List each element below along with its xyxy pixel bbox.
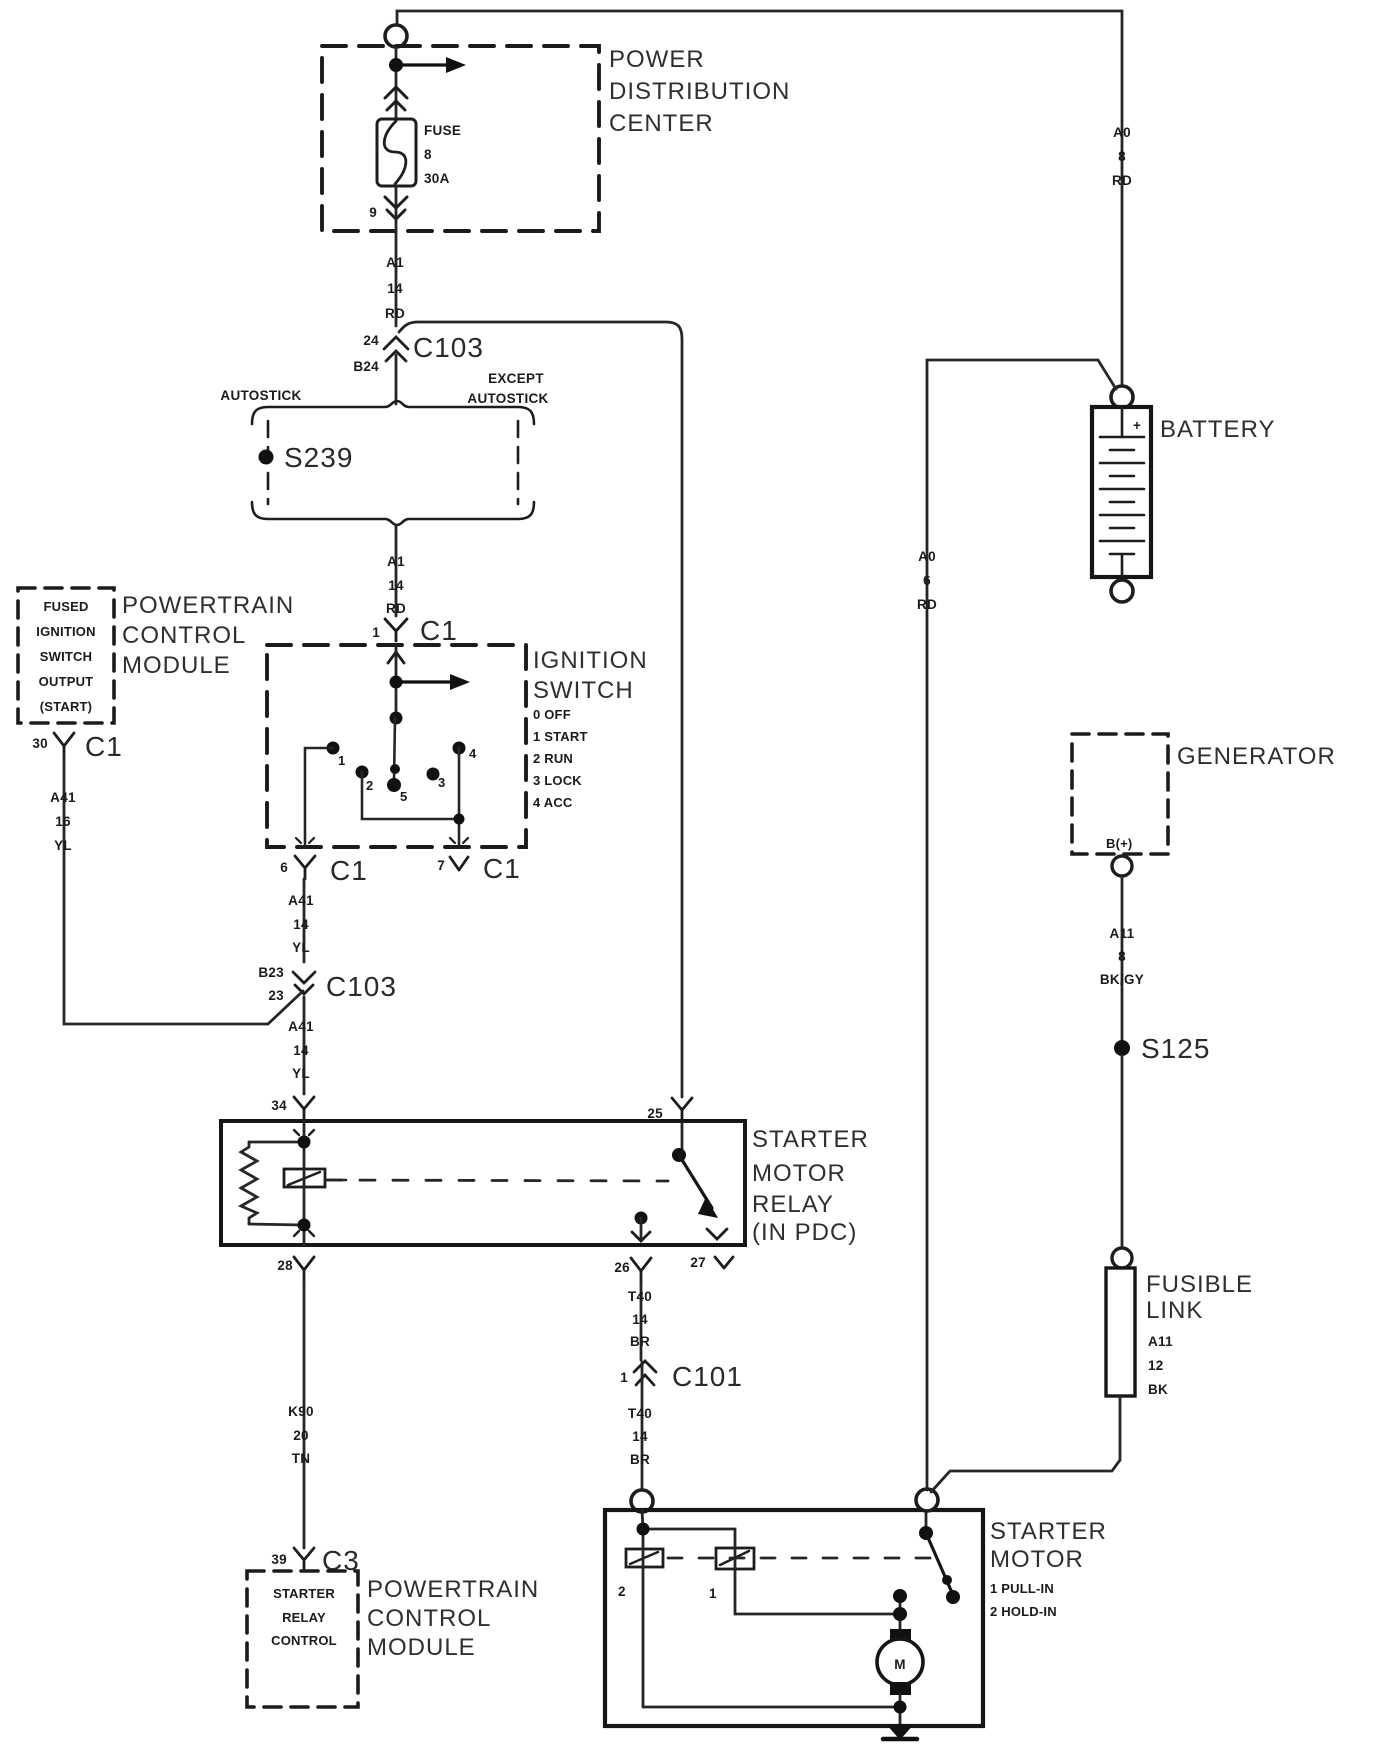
wire fusible link to starter terminal xyxy=(931,1396,1120,1492)
wire S125 to fusible link xyxy=(1121,1056,1124,1249)
svg-text:14: 14 xyxy=(387,281,403,296)
svg-text:A1: A1 xyxy=(386,255,404,270)
label POWERTRAIN CONTROL MODULE (upper) xyxy=(122,592,294,679)
svg-text:A11: A11 xyxy=(1148,1334,1173,1349)
starter solenoid terminal eyelet xyxy=(631,1490,653,1512)
fuse 8 30A xyxy=(377,119,461,186)
wire A11 8 BK/GY (generator output) xyxy=(1121,876,1124,1040)
svg-text:39: 39 xyxy=(271,1552,287,1567)
svg-text:A0: A0 xyxy=(1113,125,1131,140)
relay pin 27 exit xyxy=(707,1229,727,1239)
svg-text:6: 6 xyxy=(280,860,288,875)
svg-text:S125: S125 xyxy=(1141,1033,1210,1064)
wire K90 20 TN (relay control to PCM) xyxy=(303,1281,306,1548)
svg-text:3 LOCK: 3 LOCK xyxy=(533,773,582,788)
svg-text:GENERATOR: GENERATOR xyxy=(1177,743,1336,770)
svg-text:MOTOR: MOTOR xyxy=(990,1546,1084,1573)
svg-text:C103: C103 xyxy=(326,971,397,1002)
wire A1 14 RD (S239 to ignition switch C1) xyxy=(395,525,398,616)
svg-text:K90: K90 xyxy=(288,1404,314,1419)
label POWER DISTRIBUTION CENTER xyxy=(609,46,790,137)
svg-text:MODULE: MODULE xyxy=(122,652,231,679)
fused ignition switch output box (dashed) xyxy=(18,588,114,723)
ground xyxy=(886,1724,914,1740)
svg-text:A41: A41 xyxy=(288,893,314,908)
svg-text:POWER: POWER xyxy=(609,46,705,73)
wire A41 14 YL (C103 to relay pin 34) xyxy=(303,997,306,1094)
svg-text:28: 28 xyxy=(277,1258,293,1273)
svg-text:1: 1 xyxy=(372,625,380,640)
svg-text:(IN PDC): (IN PDC) xyxy=(752,1219,857,1246)
svg-text:26: 26 xyxy=(614,1260,630,1275)
motor M xyxy=(890,1629,911,1642)
svg-text:YL: YL xyxy=(292,940,310,955)
ignition contact 2 xyxy=(356,766,369,779)
svg-text:24: 24 xyxy=(363,333,379,348)
wire T40 14 BR (relay to C101) xyxy=(640,1282,643,1360)
svg-text:A1: A1 xyxy=(387,554,405,569)
svg-text:4: 4 xyxy=(469,746,477,761)
power distribution center box (dashed) xyxy=(322,46,599,231)
relay entry ticks pin34 xyxy=(294,1130,314,1135)
ignition contact 3 xyxy=(427,768,440,781)
svg-text:RD: RD xyxy=(386,601,406,616)
svg-text:6: 6 xyxy=(923,573,931,588)
fusible link xyxy=(1112,1248,1132,1268)
svg-text:5: 5 xyxy=(400,789,407,804)
svg-text:CONTROL: CONTROL xyxy=(122,622,246,649)
relay coil element box xyxy=(284,1169,325,1187)
svg-text:B24: B24 xyxy=(353,359,379,374)
svg-text:1 START: 1 START xyxy=(533,729,588,744)
svg-text:BK/GY: BK/GY xyxy=(1100,972,1144,987)
mechanical link (dashed) xyxy=(327,1180,668,1181)
svg-text:2 RUN: 2 RUN xyxy=(533,751,573,766)
wire: except-autostick branch to starter relay pin 25 xyxy=(399,322,682,1097)
svg-text:16: 16 xyxy=(55,814,71,829)
svg-text:14: 14 xyxy=(293,1043,309,1058)
solenoid contact 1 (pull-in) xyxy=(716,1548,754,1569)
svg-text:30: 30 xyxy=(32,736,48,751)
label STARTER MOTOR RELAY (IN PDC) xyxy=(752,1126,869,1246)
wire A1 14 RD (PDC to C103) xyxy=(395,232,398,326)
wire A41 16 YL (PCM start output) xyxy=(64,758,303,1024)
svg-text:(START): (START) xyxy=(40,699,92,714)
svg-text:RELAY: RELAY xyxy=(282,1610,326,1625)
ignition contact 1 xyxy=(327,742,340,755)
svg-text:C1: C1 xyxy=(483,853,521,884)
svg-text:2: 2 xyxy=(366,778,373,793)
svg-text:STARTER: STARTER xyxy=(273,1586,335,1601)
wire contact1 to C1 pin6 xyxy=(305,748,333,845)
svg-text:14: 14 xyxy=(632,1429,648,1444)
starter internal wiring xyxy=(642,1510,900,1707)
svg-text:FUSE: FUSE xyxy=(424,123,461,138)
svg-text:IGNITION: IGNITION xyxy=(36,624,95,639)
node: ignition feed junction with arrow xyxy=(390,676,403,689)
wire A0 6 RD label xyxy=(917,549,937,612)
svg-text:MODULE: MODULE xyxy=(367,1634,476,1661)
connector chevrons (bus tap) xyxy=(385,87,407,110)
label IGNITION SWITCH with positions xyxy=(533,647,648,704)
svg-text:POWERTRAIN: POWERTRAIN xyxy=(122,592,294,619)
svg-text:A41: A41 xyxy=(288,1019,314,1034)
svg-text:AUTOSTICK: AUTOSTICK xyxy=(220,388,301,403)
wire into splice (autostick side) xyxy=(395,355,398,404)
svg-text:OUTPUT: OUTPUT xyxy=(39,674,94,689)
svg-text:30A: 30A xyxy=(424,171,450,186)
svg-text:2: 2 xyxy=(618,1584,626,1599)
wire inside PDC xyxy=(395,47,398,120)
wire A41 14 YL (C1 to C103) xyxy=(303,879,306,962)
junction dots to motor xyxy=(893,1589,907,1603)
connector: PDC eyelet terminal xyxy=(385,25,407,47)
svg-text:RD: RD xyxy=(385,306,405,321)
svg-text:YL: YL xyxy=(292,1066,310,1081)
svg-text:RD: RD xyxy=(917,597,937,612)
splice S239 dot and label xyxy=(259,450,274,465)
svg-text:T40: T40 xyxy=(628,1406,652,1421)
svg-text:B23: B23 xyxy=(258,965,284,980)
connector C103 pin 24/B24 xyxy=(384,337,408,361)
svg-text:BR: BR xyxy=(630,1452,650,1467)
switch wiper pivot xyxy=(390,764,400,774)
svg-text:DISTRIBUTION: DISTRIBUTION xyxy=(609,78,790,105)
svg-text:C103: C103 xyxy=(413,332,484,363)
splice S239 (bracketed box) xyxy=(252,401,534,525)
svg-text:8: 8 xyxy=(1118,149,1126,164)
starter battery terminal eyelet xyxy=(916,1489,938,1511)
svg-text:23: 23 xyxy=(268,988,284,1003)
wire contact2 to contact4 leg xyxy=(362,772,459,819)
battery xyxy=(1111,386,1133,408)
relay switch contact xyxy=(681,1121,684,1150)
svg-text:FUSIBLE: FUSIBLE xyxy=(1146,1271,1253,1298)
svg-text:LINK: LINK xyxy=(1146,1297,1203,1324)
node: switch common xyxy=(390,712,403,725)
svg-text:4 ACC: 4 ACC xyxy=(533,795,573,810)
svg-text:S239: S239 xyxy=(284,442,353,473)
svg-text:25: 25 xyxy=(647,1106,663,1121)
svg-text:SWITCH: SWITCH xyxy=(533,677,634,704)
ignition switch box (dashed) xyxy=(267,645,526,847)
svg-text:C101: C101 xyxy=(672,1361,743,1392)
svg-text:0 OFF: 0 OFF xyxy=(533,707,571,722)
label FUSIBLE LINK A11 12 BK xyxy=(1146,1271,1253,1324)
svg-text:TN: TN xyxy=(292,1451,311,1466)
svg-text:A0: A0 xyxy=(918,549,936,564)
svg-text:3: 3 xyxy=(438,775,445,790)
svg-text:2 HOLD-IN: 2 HOLD-IN xyxy=(990,1604,1057,1619)
mechanical link (dashed) xyxy=(668,1557,936,1560)
svg-text:CENTER: CENTER xyxy=(609,110,714,137)
svg-text:BATTERY: BATTERY xyxy=(1160,416,1275,443)
starter motor box xyxy=(605,1510,983,1726)
solenoid contact 2 (hold-in) xyxy=(626,1549,663,1567)
svg-text:1: 1 xyxy=(338,753,345,768)
svg-text:BK: BK xyxy=(1148,1382,1168,1397)
svg-text:8: 8 xyxy=(424,147,432,162)
splice S125 xyxy=(1114,1040,1130,1056)
svg-text:IGNITION: IGNITION xyxy=(533,647,648,674)
wire: battery positive to starter branch xyxy=(927,360,1116,1490)
svg-text:SWITCH: SWITCH xyxy=(40,649,92,664)
svg-text:BR: BR xyxy=(630,1334,650,1349)
svg-text:C1: C1 xyxy=(85,731,123,762)
starter motor relay box xyxy=(221,1121,745,1245)
svg-text:CONTROL: CONTROL xyxy=(271,1633,337,1648)
svg-text:C1: C1 xyxy=(330,855,368,886)
svg-text:7: 7 xyxy=(437,858,445,873)
svg-text:1 PULL-IN: 1 PULL-IN xyxy=(990,1581,1054,1596)
svg-text:14: 14 xyxy=(293,917,309,932)
svg-text:YL: YL xyxy=(54,838,72,853)
svg-text:EXCEPT: EXCEPT xyxy=(488,371,544,386)
relay pin 26 (common) xyxy=(635,1212,648,1225)
svg-text:POWERTRAIN: POWERTRAIN xyxy=(367,1576,539,1603)
svg-text:STARTER: STARTER xyxy=(990,1518,1107,1545)
svg-text:STARTER: STARTER xyxy=(752,1126,869,1153)
PCM starter relay control box (dashed) xyxy=(247,1571,358,1707)
svg-text:MOTOR: MOTOR xyxy=(752,1160,846,1187)
svg-text:34: 34 xyxy=(271,1098,287,1113)
resistor: relay coil zigzag xyxy=(241,1142,257,1224)
starter switch contact xyxy=(925,1510,928,1528)
wire into ignition switch with entry chevron xyxy=(395,645,398,718)
svg-text:AUTOSTICK: AUTOSTICK xyxy=(467,391,548,406)
svg-text:1: 1 xyxy=(709,1586,717,1601)
svg-text:C1: C1 xyxy=(420,615,458,646)
wire: top battery feed from PDC to battery positive xyxy=(397,11,1122,386)
svg-text:B(+): B(+) xyxy=(1106,836,1132,851)
svg-text:M: M xyxy=(894,1657,906,1672)
svg-text:FUSED: FUSED xyxy=(43,599,88,614)
label POWERTRAIN CONTROL MODULE (lower) xyxy=(367,1576,539,1661)
svg-text:1: 1 xyxy=(620,1370,628,1385)
wire contact4 to C1 pin7 xyxy=(458,748,461,845)
wire A0 8 RD label (battery feed) xyxy=(1112,125,1132,188)
svg-text:14: 14 xyxy=(632,1312,648,1327)
svg-text:CONTROL: CONTROL xyxy=(367,1605,491,1632)
svg-text:+: + xyxy=(1133,418,1141,433)
wire T40 14 BR (C101 to starter) xyxy=(641,1362,644,1490)
node: PDC bus junction with feed arrow xyxy=(389,58,403,72)
svg-text:9: 9 xyxy=(369,205,377,220)
relay coil circuit xyxy=(241,1121,304,1245)
svg-text:RD: RD xyxy=(1112,173,1132,188)
svg-text:12: 12 xyxy=(1148,1358,1164,1373)
svg-text:A11: A11 xyxy=(1110,926,1135,941)
svg-text:20: 20 xyxy=(293,1428,309,1443)
svg-text:8: 8 xyxy=(1118,949,1126,964)
svg-text:T40: T40 xyxy=(628,1289,652,1304)
svg-text:27: 27 xyxy=(690,1255,706,1270)
relay exit ticks pin28 xyxy=(294,1231,314,1236)
label STARTER MOTOR xyxy=(990,1518,1107,1573)
generator box (dashed) xyxy=(1072,734,1168,854)
svg-text:A41: A41 xyxy=(50,790,76,805)
svg-text:RELAY: RELAY xyxy=(752,1191,834,1218)
ignition contact 4 xyxy=(453,742,466,755)
svg-text:14: 14 xyxy=(388,578,404,593)
